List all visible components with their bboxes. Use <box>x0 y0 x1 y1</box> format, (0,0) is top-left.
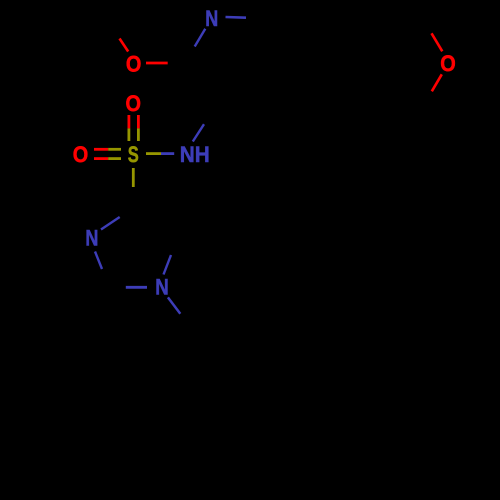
wire N1-C2 (blue half) <box>126 286 147 289</box>
svg-text:N: N <box>155 275 169 300</box>
svg-text:O: O <box>440 51 456 76</box>
wire N3-C2 (blue half) <box>95 252 102 270</box>
wire N3-C4 (blue half) <box>101 217 120 230</box>
wire S=O vertical line B (red half) <box>137 115 140 128</box>
svg-text:N: N <box>205 6 218 31</box>
wire O(methoxy-right)-Caryl (red half) <box>432 74 442 91</box>
wire O(methoxy-left)-C2pyr (red half) <box>146 62 168 65</box>
svg-text:S: S <box>128 142 139 167</box>
wire N1pyr-C2 (blue half) <box>195 29 206 47</box>
wire S=O vertical line A (olive half) <box>127 128 130 141</box>
wire S=O vertical line B (olive half) <box>137 128 140 141</box>
wire S-N (blue half) <box>161 152 174 155</box>
wire O=S horizontal line A (olive half) <box>108 148 121 151</box>
wire N1-C5 (blue half) <box>164 255 172 275</box>
wire S-N (olive half) <box>146 152 161 155</box>
wire O=S horizontal line B (red half) <box>94 157 108 160</box>
wire S-C4imid (olive half) <box>132 168 135 187</box>
svg-text:O: O <box>125 91 141 116</box>
wire S=O vertical line A (red half) <box>127 115 130 128</box>
wire O(methoxy-left)-CH3 (red half) <box>120 39 129 52</box>
wire NH-C3pyr (blue half) <box>193 124 204 141</box>
svg-text:O: O <box>73 142 89 167</box>
wire O(methoxy-right)-CH3 (red half) <box>432 33 443 51</box>
svg-text:O: O <box>126 51 142 76</box>
wire O=S horizontal line B (olive half) <box>108 157 121 160</box>
svg-text:NH: NH <box>180 142 210 167</box>
wire O=S horizontal line A (red half) <box>94 148 108 151</box>
wire N1pyr-C6 (blue half) <box>226 16 247 19</box>
wire N1-CH2 benzyl (blue half) <box>168 297 180 313</box>
svg-text:N: N <box>85 225 98 250</box>
